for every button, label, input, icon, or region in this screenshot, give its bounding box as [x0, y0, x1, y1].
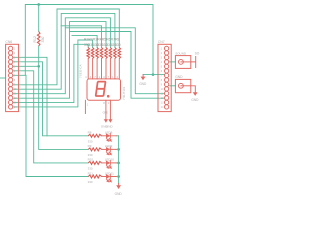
wire LED row 1 feed [11, 62, 89, 136]
resistor R3 [93, 38, 99, 79]
svg-text:GND: GND [175, 75, 183, 79]
svg-text:8: 8 [161, 80, 163, 82]
ground at right edge [191, 86, 199, 102]
connector edge stub right [191, 57, 196, 68]
svg-text:330: 330 [88, 180, 93, 184]
svg-text:7: 7 [94, 75, 96, 79]
svg-text:7SEG-CA: 7SEG-CA [79, 63, 83, 78]
wire stub pin 3 [11, 57, 47, 136]
wire net seg-d loop [11, 22, 106, 99]
resistor R1 [84, 38, 90, 79]
ground under display 2 [106, 119, 114, 128]
wire CN7 to SOUND header [169, 61, 176, 63]
svg-text:HD-H101: HD-H101 [122, 86, 126, 99]
svg-text:SO: SO [195, 51, 200, 55]
svg-text:LED10: LED10 [105, 158, 115, 162]
svg-text:4: 4 [103, 75, 105, 79]
svg-text:1: 1 [85, 75, 87, 79]
wire LED cathode tap [116, 135, 118, 137]
wire LED cathode tap [116, 148, 118, 150]
resistor R4 [97, 38, 103, 79]
resistor R11 [88, 171, 102, 184]
wire LED row 2 feed (via R12) [11, 66, 89, 149]
wire LED cathode collector [118, 136, 120, 184]
svg-text:10: 10 [161, 89, 164, 91]
wire net seg-b loop [72, 35, 97, 47]
resistor R9 [88, 144, 102, 157]
connector CN7 [158, 40, 171, 112]
wire net seg-a loop [11, 40, 93, 107]
wire net seg-e loop [11, 18, 111, 94]
svg-text:6: 6 [161, 71, 163, 73]
svg-text:4: 4 [161, 62, 163, 64]
LED LED11 [102, 171, 117, 181]
wire LED cathode tap [116, 176, 118, 178]
svg-text:4: 4 [90, 75, 92, 79]
svg-text:R10: R10 [88, 158, 94, 162]
svg-text:2: 2 [161, 53, 163, 55]
svg-text:CN6: CN6 [5, 40, 12, 44]
svg-text:LED9: LED9 [105, 144, 113, 148]
svg-text:LED8: LED8 [105, 131, 113, 135]
LED LED9 [102, 144, 117, 154]
svg-text:1: 1 [87, 103, 89, 107]
svg-text:GND: GND [106, 124, 114, 128]
resistor R5 [102, 38, 108, 79]
junction [117, 175, 120, 178]
svg-text:9: 9 [161, 84, 163, 86]
resistor R10 [88, 158, 102, 171]
svg-text:R9: R9 [88, 144, 92, 148]
resistor R2 [88, 38, 94, 79]
svg-text:GND: GND [191, 98, 199, 102]
resistor R8 [115, 38, 121, 79]
svg-text:1: 1 [14, 48, 16, 50]
LED LED10 [102, 158, 117, 168]
svg-text:R12: R12 [33, 36, 37, 42]
wire CN7 to GND header [169, 85, 176, 87]
svg-text:330: 330 [115, 43, 121, 47]
svg-text:3: 3 [108, 101, 110, 105]
svg-text:330: 330 [88, 139, 93, 143]
ground LED collector [115, 184, 123, 196]
svg-text:1: 1 [161, 48, 163, 50]
svg-text:GND: GND [115, 192, 123, 196]
wire GND top bus [11, 5, 153, 76]
ground near CN7 [139, 75, 147, 87]
wire GND to CN7 [143, 74, 164, 76]
svg-text:R11: R11 [88, 171, 94, 175]
svg-text:330: 330 [41, 37, 45, 43]
svg-text:SOUND: SOUND [175, 51, 187, 55]
svg-text:R8: R8 [88, 131, 92, 135]
connector CN6 [5, 40, 18, 112]
svg-text:330: 330 [88, 153, 93, 157]
svg-text:LED11: LED11 [105, 171, 114, 175]
svg-text:GND: GND [139, 82, 147, 86]
display pin (n.c.) [84, 100, 86, 113]
svg-text:R8: R8 [115, 38, 119, 42]
svg-text:330: 330 [88, 167, 93, 171]
junction [152, 73, 155, 76]
wire LED cathode tap [116, 162, 118, 164]
wire net seg-dp loop [11, 44, 89, 102]
svg-text:8: 8 [14, 80, 16, 82]
wire LED row 3 feed [11, 71, 89, 163]
svg-text:CN7: CN7 [158, 40, 165, 44]
svg-text:13: 13 [161, 102, 164, 104]
junction [37, 3, 40, 6]
display GND pin 1 [105, 100, 107, 119]
wire net to CN7 pin b [70, 32, 165, 99]
svg-text:7: 7 [108, 75, 110, 79]
wire stub at left edge [0, 77, 6, 79]
wire LED row 4 feed [26, 75, 88, 176]
svg-text:4: 4 [116, 75, 118, 79]
svg-text:7: 7 [161, 75, 163, 77]
svg-text:14: 14 [161, 107, 164, 109]
svg-text:1: 1 [99, 75, 101, 79]
svg-text:2: 2 [14, 53, 16, 55]
junction [117, 148, 120, 151]
LED LED8 [102, 131, 117, 141]
svg-text:5: 5 [161, 66, 163, 68]
wire net to CN7 pin a [65, 28, 164, 94]
resistor R12 [33, 5, 45, 67]
resistor R7 [111, 38, 117, 79]
7-segment display U1 [79, 63, 126, 100]
wire net seg-f loop [11, 13, 115, 89]
resistor R6 [106, 38, 112, 79]
junction [37, 65, 40, 68]
connector GND header [175, 75, 191, 93]
svg-text:3: 3 [161, 57, 163, 59]
display GND pin 2 [109, 100, 111, 119]
connector SOUND header [175, 51, 191, 68]
wire net seg-c loop [61, 26, 101, 48]
ground under display 1 [101, 119, 109, 128]
svg-text:1: 1 [112, 75, 114, 79]
svg-text:8: 8 [103, 101, 105, 105]
wire net seg-g loop [11, 9, 120, 85]
junction [117, 162, 120, 165]
resistor R8 [88, 131, 102, 144]
